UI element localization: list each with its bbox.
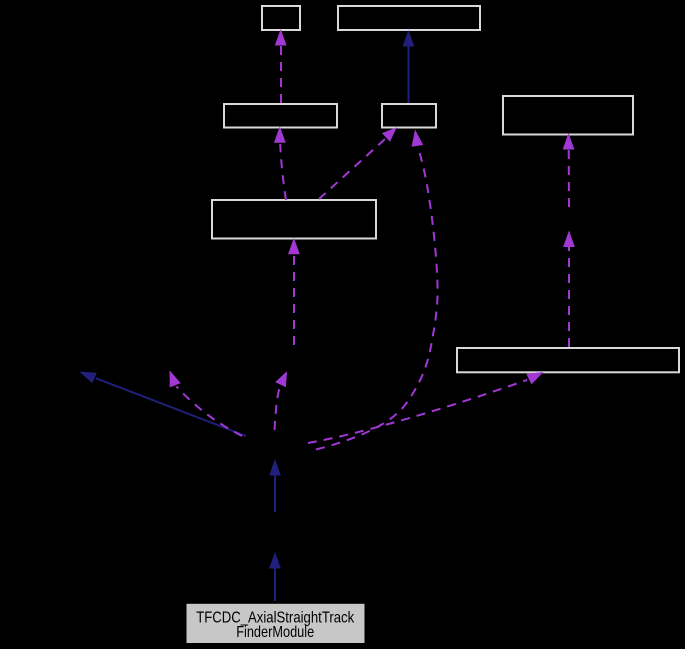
edge hub to D (long dashed curve): [316, 130, 438, 450]
node box C (row2 left): [224, 104, 337, 128]
edge I3 to F (dashed): [288, 238, 300, 345]
edge C to A (dashed): [275, 29, 287, 103]
node box A (top small): [262, 6, 300, 30]
edge hub to mid-left node (dashed curve): [170, 370, 243, 436]
node box B (top wide): [338, 6, 480, 30]
edge F to C (dashed): [274, 126, 286, 200]
node box E (row2 right, two-line): [503, 96, 633, 135]
edge hub to I3 (dashed): [275, 371, 288, 430]
edge I4 to E (dashed, invisible source node): [563, 133, 575, 207]
node box D (row2 middle): [382, 104, 436, 128]
edge G to I4 (dashed): [563, 231, 575, 348]
edge I1 to hub (solid blue): [269, 459, 281, 512]
svg-text:FinderModule: FinderModule: [236, 624, 314, 641]
node box G (row4 right wide): [457, 348, 679, 372]
edge D to B (solid blue): [403, 30, 415, 103]
main node TFCDC_AxialStraightTrackFinderModule (grey box): [187, 604, 365, 643]
node box F (row3, two-line): [212, 200, 376, 239]
edge hub to left node (solid blue): [79, 372, 246, 437]
edge hub to G (dashed): [308, 372, 544, 443]
edge main node to I1 (solid blue): [269, 552, 281, 601]
edge F to D (dashed diagonal): [319, 127, 397, 199]
